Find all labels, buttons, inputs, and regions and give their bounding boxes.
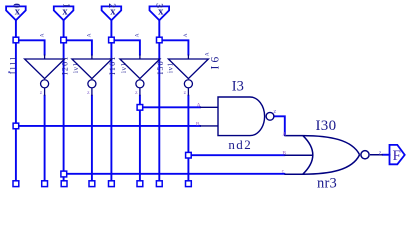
svg-text:A: A (197, 102, 201, 108)
svg-text:I3: I3 (232, 79, 244, 95)
svg-text:I201: I201 (60, 56, 69, 75)
svg-text:A: A (282, 132, 286, 137)
svg-text:I50: I50 (156, 60, 165, 74)
svg-text:A: A (135, 33, 141, 37)
svg-text:I101: I101 (108, 56, 117, 75)
svg-text:z: z (379, 150, 382, 157)
svg-text:z: z (274, 108, 277, 115)
svg-text:A: A (205, 52, 211, 56)
svg-text:x: x (62, 6, 68, 17)
svg-text:nd2: nd2 (228, 137, 252, 152)
svg-text:A: A (87, 33, 93, 37)
svg-text:iv1: iv1 (120, 63, 128, 73)
svg-text:I30: I30 (316, 118, 337, 134)
svg-text:B: B (282, 150, 286, 156)
svg-text:F: F (393, 148, 401, 164)
svg-text:x: x (158, 6, 164, 17)
svg-text:A: A (39, 33, 45, 37)
svg-text:x: x (15, 6, 21, 17)
svg-text:I6: I6 (209, 54, 221, 70)
svg-text:iv1: iv1 (167, 63, 175, 73)
svg-text:nr3: nr3 (317, 175, 337, 191)
svg-text:A: A (183, 33, 189, 37)
svg-text:iv1: iv1 (72, 63, 80, 73)
svg-text:B: B (196, 121, 200, 127)
svg-text:x: x (110, 6, 116, 17)
